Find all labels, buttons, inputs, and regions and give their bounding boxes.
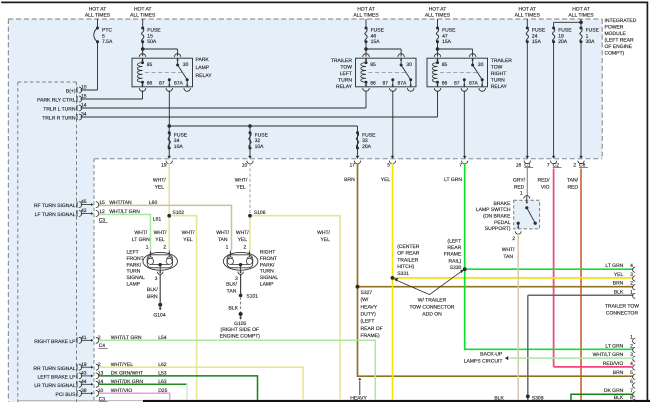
svg-text:BRAKE: BRAKE [494, 201, 512, 207]
svg-text:GRY/: GRY/ [513, 178, 526, 184]
svg-text:YEL: YEL [236, 185, 246, 191]
svg-text:PARK RLY CTRL: PARK RLY CTRL [37, 98, 76, 104]
svg-text:W/ TRAILER: W/ TRAILER [418, 297, 447, 303]
svg-text:BRN: BRN [344, 177, 355, 183]
svg-text:MODULE: MODULE [605, 31, 627, 37]
svg-text:87: 87 [454, 81, 460, 87]
svg-text:15A: 15A [532, 39, 542, 45]
svg-text:HITCH): HITCH) [397, 264, 414, 270]
svg-text:S331: S331 [397, 271, 409, 277]
svg-text:50A: 50A [147, 39, 157, 45]
svg-text:TURN: TURN [491, 78, 505, 84]
svg-text:RED/: RED/ [538, 178, 551, 184]
svg-text:86: 86 [370, 81, 376, 87]
svg-text:85: 85 [370, 62, 376, 68]
svg-text:RIGHT BRAKE LP: RIGHT BRAKE LP [34, 339, 76, 345]
svg-text:RELAY: RELAY [491, 84, 508, 90]
svg-text:87: 87 [159, 81, 165, 87]
svg-text:REAR OF: REAR OF [361, 326, 383, 332]
svg-text:ALL TIMES: ALL TIMES [85, 12, 111, 18]
svg-text:85: 85 [147, 62, 153, 68]
svg-text:WHT/: WHT/ [134, 230, 147, 236]
svg-text:RED/VIO: RED/VIO [603, 361, 624, 367]
svg-text:WHT/: WHT/ [317, 230, 330, 236]
svg-text:CONNECTOR: CONNECTOR [606, 310, 639, 316]
svg-text:LAMPS CIRCUIT: LAMPS CIRCUIT [464, 359, 503, 365]
svg-text:PARK/: PARK/ [260, 262, 275, 268]
svg-text:YEL: YEL [183, 237, 193, 243]
svg-text:L61: L61 [153, 216, 162, 222]
svg-text:INTEGRATED: INTEGRATED [605, 18, 637, 24]
svg-text:TAN/: TAN/ [567, 178, 579, 184]
svg-text:1: 1 [226, 244, 229, 250]
svg-text:TRAILER: TRAILER [397, 257, 419, 263]
svg-text:HOT AT: HOT AT [572, 6, 590, 12]
svg-text:TAN: TAN [503, 254, 513, 260]
svg-text:YEL: YEL [155, 237, 165, 243]
svg-text:(LEFT: (LEFT [447, 238, 461, 244]
svg-text:LT GRN: LT GRN [605, 263, 623, 269]
svg-text:ALL TIMES: ALL TIMES [568, 12, 594, 18]
svg-text:TRLR R TURN: TRLR R TURN [42, 116, 76, 122]
svg-text:B(+): B(+) [66, 89, 76, 95]
svg-text:S101: S101 [246, 294, 258, 300]
svg-text:WHT/: WHT/ [154, 230, 167, 236]
svg-text:YEL: YEL [320, 237, 330, 243]
svg-text:S327: S327 [361, 290, 373, 296]
svg-text:30: 30 [183, 62, 189, 68]
svg-text:(RIGHT SIDE OF: (RIGHT SIDE OF [221, 327, 260, 333]
svg-text:TRAILER: TRAILER [491, 58, 513, 64]
svg-text:ALL TIMES: ALL TIMES [425, 12, 451, 18]
svg-text:HOT AT: HOT AT [429, 6, 447, 12]
svg-text:FRAME: FRAME [444, 252, 462, 258]
svg-text:15A: 15A [442, 39, 452, 45]
svg-text:86: 86 [442, 81, 448, 87]
svg-text:WHT/: WHT/ [236, 230, 249, 236]
svg-text:ALL TIMES: ALL TIMES [130, 12, 156, 18]
svg-text:87A: 87A [174, 81, 184, 87]
svg-text:YEL: YEL [381, 177, 391, 183]
svg-text:ALL TIMES: ALL TIMES [515, 12, 541, 18]
svg-text:S330: S330 [450, 265, 462, 271]
svg-text:RAIL): RAIL) [449, 258, 462, 264]
svg-text:HOT AT: HOT AT [134, 6, 152, 12]
svg-text:1: 1 [146, 244, 149, 250]
svg-text:COMPT): COMPT) [605, 50, 625, 56]
svg-text:LAMP: LAMP [260, 281, 274, 287]
svg-text:TURN: TURN [260, 269, 274, 275]
svg-text:85: 85 [442, 62, 448, 68]
svg-text:TRAILER: TRAILER [331, 58, 353, 64]
svg-text:RR TURN SIGNAL: RR TURN SIGNAL [33, 366, 75, 372]
svg-text:BLK/: BLK/ [147, 287, 158, 293]
svg-text:LT GRN: LT GRN [132, 237, 150, 243]
svg-text:HEAVY: HEAVY [361, 304, 378, 310]
svg-text:2: 2 [573, 162, 576, 168]
svg-text:REAR: REAR [447, 245, 461, 251]
svg-text:10: 10 [242, 162, 248, 168]
svg-text:WHT/: WHT/ [182, 230, 195, 236]
svg-text:RF TURN SIGNAL: RF TURN SIGNAL [34, 203, 76, 209]
svg-text:30: 30 [406, 62, 412, 68]
svg-text:PCI BUS: PCI BUS [55, 392, 76, 398]
svg-text:BACK-UP: BACK-UP [480, 352, 503, 358]
svg-text:30: 30 [478, 62, 484, 68]
svg-text:BRN: BRN [147, 294, 158, 300]
svg-text:TURN: TURN [338, 78, 352, 84]
svg-text:15A: 15A [371, 39, 381, 45]
svg-text:LT GRN: LT GRN [605, 343, 623, 349]
svg-text:PARK/: PARK/ [127, 262, 142, 268]
svg-text:ALL TIMES: ALL TIMES [353, 12, 379, 18]
svg-text:2: 2 [243, 244, 246, 250]
svg-text:TOW: TOW [340, 64, 352, 70]
svg-text:WHT/: WHT/ [153, 178, 166, 184]
svg-text:WHT/LT GRN: WHT/LT GRN [593, 352, 624, 358]
svg-text:WHT/: WHT/ [235, 178, 248, 184]
svg-text:WHT/: WHT/ [502, 247, 515, 253]
svg-text:ADD ON: ADD ON [422, 311, 442, 317]
svg-text:87A: 87A [397, 81, 407, 87]
svg-text:FRONT: FRONT [260, 256, 277, 262]
svg-text:LAMP: LAMP [196, 65, 210, 71]
svg-text:7.5A: 7.5A [102, 39, 113, 45]
svg-text:RIGHT: RIGHT [491, 71, 507, 77]
svg-text:BLK: BLK [229, 305, 239, 311]
svg-text:OF ENGINE: OF ENGINE [605, 44, 633, 50]
svg-text:(ON BRAKE: (ON BRAKE [483, 214, 511, 220]
svg-text:HOT AT: HOT AT [357, 6, 375, 12]
svg-text:(W/: (W/ [361, 297, 369, 303]
svg-text:1: 1 [520, 191, 523, 197]
svg-text:HOT AT: HOT AT [89, 6, 107, 12]
svg-text:DK GRN: DK GRN [604, 388, 624, 394]
svg-text:POWER: POWER [605, 24, 624, 30]
svg-text:30A: 30A [586, 39, 596, 45]
svg-text:TRLR L TURN: TRLR L TURN [43, 107, 76, 113]
svg-text:PARK: PARK [196, 57, 210, 63]
svg-text:LR TURN SIGNAL: LR TURN SIGNAL [34, 383, 76, 389]
svg-text:SUPPORT): SUPPORT) [485, 226, 511, 232]
svg-text:VIO: VIO [541, 185, 550, 191]
svg-text:SIGNAL: SIGNAL [127, 275, 146, 281]
svg-text:FRONT: FRONT [127, 256, 144, 262]
svg-text:HEAVY: HEAVY [350, 395, 367, 401]
svg-text:TOW CONNECTOR: TOW CONNECTOR [409, 304, 454, 310]
svg-text:(LEFT REAR: (LEFT REAR [605, 37, 634, 43]
svg-text:7: 7 [547, 162, 550, 168]
svg-text:LEFT BRAKE LP: LEFT BRAKE LP [38, 375, 77, 381]
svg-text:LAMP SWITCH: LAMP SWITCH [476, 207, 511, 213]
svg-text:20A: 20A [558, 39, 568, 45]
svg-text:10A: 10A [174, 144, 184, 150]
svg-text:PEDAL: PEDAL [494, 220, 511, 226]
svg-text:5: 5 [387, 162, 390, 168]
svg-text:17: 17 [349, 162, 355, 168]
svg-text:SIGNAL: SIGNAL [260, 275, 279, 281]
svg-text:FRAME): FRAME) [361, 333, 381, 339]
svg-text:BLK: BLK [614, 395, 624, 401]
svg-text:WHT/: WHT/ [216, 230, 229, 236]
svg-text:7: 7 [459, 162, 462, 168]
svg-text:2: 2 [163, 244, 166, 250]
svg-text:RELAY: RELAY [336, 84, 353, 90]
svg-text:87: 87 [382, 81, 388, 87]
svg-text:LEFT: LEFT [127, 250, 139, 256]
svg-text:YEL: YEL [155, 185, 165, 191]
svg-text:G104: G104 [153, 313, 165, 319]
svg-text:LAMP: LAMP [127, 281, 141, 287]
svg-text:LEFT: LEFT [340, 71, 352, 77]
svg-text:TRAILER TOW: TRAILER TOW [605, 303, 639, 309]
svg-text:BLK: BLK [614, 289, 624, 295]
svg-text:LF TURN SIGNAL: LF TURN SIGNAL [35, 212, 76, 218]
svg-text:RELAY: RELAY [196, 73, 213, 79]
svg-text:19: 19 [161, 162, 167, 168]
svg-text:10A: 10A [255, 144, 265, 150]
svg-text:HOT AT: HOT AT [518, 6, 536, 12]
svg-text:G105: G105 [234, 321, 246, 327]
svg-text:TOW: TOW [491, 64, 503, 70]
svg-text:TURN: TURN [127, 269, 141, 275]
svg-text:RED: RED [567, 185, 578, 191]
svg-text:TAN: TAN [218, 237, 228, 243]
svg-text:YEL: YEL [238, 237, 248, 243]
svg-text:TAN: TAN [227, 288, 237, 294]
svg-text:S309: S309 [532, 396, 544, 402]
svg-text:RIGHT: RIGHT [260, 250, 276, 256]
svg-text:LT GRN: LT GRN [444, 177, 462, 183]
svg-text:86: 86 [147, 81, 153, 87]
svg-text:BRN: BRN [613, 370, 624, 376]
svg-text:(LEFT: (LEFT [361, 319, 375, 325]
svg-text:87A: 87A [469, 81, 479, 87]
svg-text:BLK: BLK [494, 396, 504, 402]
svg-text:20A: 20A [362, 144, 372, 150]
svg-text:2: 2 [512, 236, 515, 242]
svg-text:16: 16 [516, 162, 522, 168]
svg-text:C3: C3 [99, 397, 106, 402]
svg-text:BRN: BRN [613, 281, 624, 287]
svg-text:BLK/: BLK/ [226, 282, 237, 288]
svg-text:(CENTER: (CENTER [397, 244, 420, 250]
svg-text:DUTY): DUTY) [361, 311, 377, 317]
svg-text:ENGINE COMPT): ENGINE COMPT) [220, 334, 261, 340]
svg-text:YEL: YEL [614, 272, 624, 278]
svg-text:OF REAR: OF REAR [397, 251, 420, 257]
svg-text:3: 3 [155, 276, 158, 282]
